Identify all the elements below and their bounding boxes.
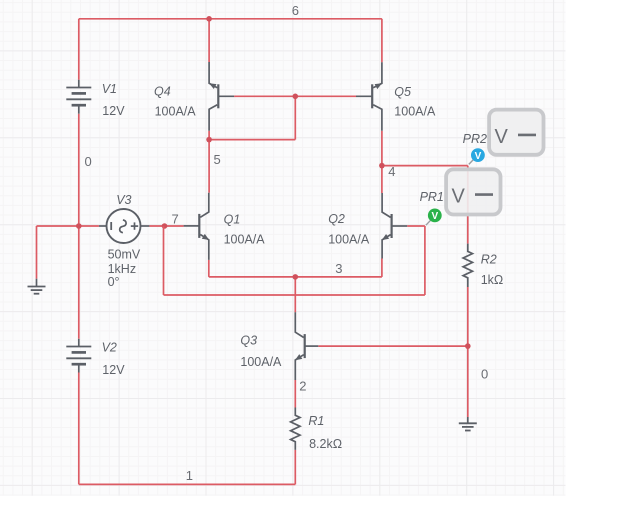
wire net0 ground drop: [36, 226, 38, 279]
wire mirror base rail: [234, 95, 356, 97]
wire net3 to Q3 collector: [294, 277, 296, 312]
svg-text:Q4: Q4: [154, 85, 171, 99]
svg-text:1kHz: 1kHz: [108, 262, 136, 276]
wire net3 emitter rail: [209, 276, 382, 278]
svg-text:V2: V2: [102, 341, 117, 355]
probe PR1: [426, 169, 501, 225]
svg-text:Q1: Q1: [224, 212, 241, 226]
svg-text:PR1: PR1: [420, 190, 444, 204]
ac source V3: [99, 209, 149, 243]
junction net3: [293, 274, 299, 280]
svg-text:100A/A: 100A/A: [224, 233, 266, 247]
transistor Q1: [184, 193, 210, 260]
svg-text:100A/A: 100A/A: [240, 355, 282, 369]
svg-text:V: V: [475, 151, 482, 162]
svg-text:3: 3: [335, 261, 342, 276]
wire Q2 base segment: [407, 225, 425, 227]
svg-text:0: 0: [85, 154, 92, 169]
svg-text:PR2: PR2: [463, 132, 487, 146]
svg-text:V: V: [495, 126, 509, 148]
ground (right): [459, 417, 477, 431]
battery V1: [66, 80, 91, 114]
svg-text:Q5: Q5: [394, 85, 411, 99]
transistor Q5: [356, 62, 382, 131]
junction net4: [379, 163, 385, 169]
wire net1 V2 negative column: [78, 373, 80, 485]
svg-text:V1: V1: [102, 82, 117, 96]
svg-text:V: V: [431, 211, 438, 222]
svg-text:4: 4: [388, 164, 395, 179]
battery V2: [66, 339, 91, 373]
wire Q4 emitter to net6: [208, 19, 210, 62]
wire net6 top rail: [79, 18, 382, 20]
wire net5 link horizontal: [209, 139, 295, 141]
wire net0 V1-V2 column: [78, 114, 80, 339]
probe PR2: [469, 110, 544, 165]
svg-text:7: 7: [172, 211, 179, 226]
junction net0: [76, 223, 82, 229]
wire net1 bottom rail: [79, 483, 295, 485]
svg-text:V3: V3: [116, 193, 131, 207]
junction net5 column: [206, 137, 212, 143]
svg-text:1kΩ: 1kΩ: [481, 273, 504, 287]
wire net7 feedback drop: [163, 226, 165, 295]
wire net2 Q3 emitter to R1: [294, 380, 296, 408]
junction base rail: [293, 94, 299, 100]
wire net4 Q2 collector riser: [381, 166, 383, 193]
svg-text:Q2: Q2: [328, 212, 345, 226]
transistor Q3: [295, 312, 318, 380]
wire net1 R1 bottom: [294, 450, 296, 485]
wire net0 Q3 base run: [318, 345, 468, 347]
svg-text:6: 6: [292, 3, 299, 18]
svg-text:2: 2: [299, 379, 306, 394]
wire net4 Q5 collector: [381, 131, 383, 166]
wire net5 Q4 collector column: [208, 131, 210, 193]
wire net0 R2 bottom column: [467, 287, 469, 417]
wire Q5 emitter to net6: [381, 19, 383, 63]
wire net4 to probe corner: [382, 165, 468, 167]
wire net7 feedback bottom run: [164, 294, 425, 296]
transistor Q4: [209, 62, 234, 131]
svg-text:8.2kΩ: 8.2kΩ: [309, 437, 342, 451]
svg-text:R1: R1: [308, 414, 324, 428]
wire net3 Q1 emitter drop: [208, 260, 210, 277]
transistor Q2: [382, 193, 408, 259]
junction net6: [206, 16, 212, 22]
junction net7: [162, 223, 168, 229]
svg-text:12V: 12V: [102, 104, 125, 118]
svg-text:Q3: Q3: [240, 333, 257, 347]
wire net5 link riser: [294, 96, 296, 139]
wire V1 positive lead: [78, 19, 80, 80]
wire net7 feedback riser to Q2 base: [424, 226, 426, 295]
svg-text:5: 5: [214, 152, 221, 167]
svg-text:0°: 0°: [108, 275, 120, 289]
svg-text:50mV: 50mV: [108, 248, 141, 262]
svg-text:100A/A: 100A/A: [155, 105, 197, 119]
wire V3 positive to Q1 base (net7): [149, 225, 183, 227]
svg-text:V: V: [452, 186, 466, 208]
ground (left): [28, 279, 46, 294]
wire V3 negative to net0: [37, 225, 99, 227]
svg-text:0: 0: [481, 367, 488, 382]
resistor R1: [291, 408, 300, 450]
svg-text:R2: R2: [481, 253, 497, 267]
junction net0 right: [465, 343, 471, 349]
resistor R2: [463, 244, 472, 287]
svg-text:100A/A: 100A/A: [394, 105, 436, 119]
svg-text:12V: 12V: [102, 363, 125, 377]
svg-text:100A/A: 100A/A: [328, 233, 370, 247]
wire net3 Q2 emitter drop: [381, 259, 383, 277]
svg-text:1: 1: [186, 468, 193, 483]
wire net4 R2 top column: [467, 166, 469, 244]
